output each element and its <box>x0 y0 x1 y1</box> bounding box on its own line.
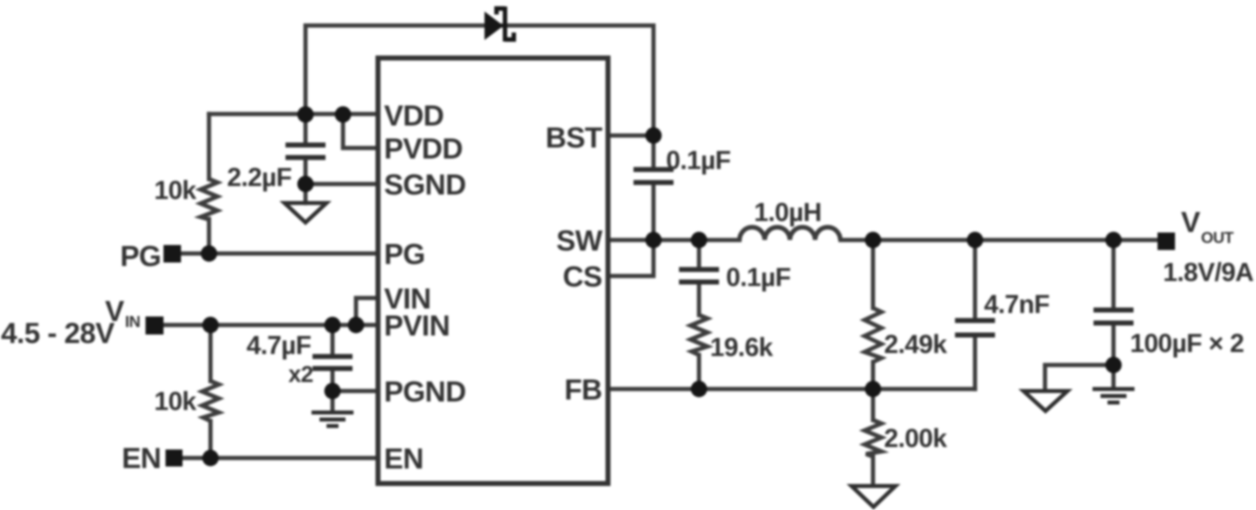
node dot VIN-c <box>348 317 364 333</box>
svg-text:x2: x2 <box>288 361 313 387</box>
svg-text:2.49k: 2.49k <box>884 329 948 359</box>
node dot VDD-b <box>335 106 351 122</box>
wire EN <box>174 456 384 460</box>
wire top loop VDD to BST <box>306 26 654 136</box>
wire SGND <box>306 182 385 186</box>
resistor 19.6k <box>691 315 708 355</box>
svg-text:PGND: PGND <box>384 377 466 409</box>
resistor 10k lower <box>202 381 219 421</box>
svg-text:V: V <box>1181 207 1201 239</box>
wire 2.2uF cap column <box>303 114 307 203</box>
svg-text:PVIN: PVIN <box>384 311 450 343</box>
IC U1 body <box>378 58 608 484</box>
svg-text:0.1µF: 0.1µF <box>726 262 791 292</box>
wire 2.49k column <box>871 240 875 389</box>
svg-text:BST: BST <box>546 123 603 155</box>
svg-text:4.7µF: 4.7µF <box>246 330 311 360</box>
wire 2.00k column <box>871 389 875 485</box>
terminal square VOUT <box>1158 233 1176 251</box>
resistor 2.49k <box>865 308 882 362</box>
resistor 2.00k <box>865 420 882 457</box>
svg-text:VDD: VDD <box>384 101 444 133</box>
wire VIN rail <box>155 323 384 327</box>
ground PGND earth bars <box>312 413 354 427</box>
svg-text:10k: 10k <box>154 386 197 416</box>
wire VIN stub <box>356 298 384 325</box>
ground 100uF earth bars <box>1093 389 1135 403</box>
node dot VDD-a <box>297 106 313 122</box>
svg-text:2.2µF: 2.2µF <box>227 162 292 192</box>
node dot SW-a <box>645 232 661 248</box>
node dot PG <box>201 245 217 261</box>
diode D1 schottky cathode bar <box>497 7 514 42</box>
ground SGND open triangle <box>285 203 327 223</box>
wire FB rail <box>602 387 975 391</box>
wire VDD branch down to PG node <box>207 114 211 254</box>
wire PG <box>172 251 384 255</box>
wire PGND <box>333 389 385 393</box>
wire SW rail left of inductor <box>602 238 740 242</box>
node dot FB-b <box>865 381 881 397</box>
terminal square VIN <box>146 317 164 335</box>
node dot VIN-b <box>324 317 340 333</box>
node dot VIN-a <box>202 317 218 333</box>
wire 0.1uF CS cap column <box>697 240 701 389</box>
svg-text:1.8V/9A: 1.8V/9A <box>1163 257 1254 287</box>
node dot SW-b <box>691 232 707 248</box>
svg-text:PVDD: PVDD <box>384 134 463 166</box>
capacitor 100uF plates <box>1094 310 1134 323</box>
wire PVDD link <box>343 115 384 148</box>
wire VDD rail <box>209 112 384 116</box>
svg-text:1.0µH: 1.0µH <box>754 197 821 227</box>
wire SW rail right of inductor <box>841 238 1167 242</box>
svg-text:4.5 - 28V: 4.5 - 28V <box>1 318 115 350</box>
svg-text:PG: PG <box>120 241 161 273</box>
wire BST cap column + CS link <box>602 136 654 277</box>
node dot SW-c <box>865 232 881 248</box>
svg-text:4.7nF: 4.7nF <box>984 289 1049 319</box>
diode D1 schottky <box>485 12 504 41</box>
resistor 10k upper <box>201 179 218 220</box>
svg-text:100µF × 2: 100µF × 2 <box>1130 328 1244 358</box>
svg-text:2.00k: 2.00k <box>884 423 948 453</box>
svg-text:EN: EN <box>384 444 423 476</box>
capacitor 4.7uF plates <box>313 357 353 369</box>
wire 4.7uF column <box>330 325 334 411</box>
svg-text:10k: 10k <box>154 175 197 205</box>
svg-text:IN: IN <box>125 314 140 331</box>
capacitor 2.2uF plates <box>286 145 326 158</box>
ground 2.00k open triangle <box>852 486 896 507</box>
svg-text:PG: PG <box>384 239 425 271</box>
svg-text:SW: SW <box>556 226 603 258</box>
capacitor CS 0.1uF plates <box>679 270 719 283</box>
svg-text:OUT: OUT <box>1201 230 1234 247</box>
node dot COUT-gnd <box>1105 357 1121 373</box>
wire 10k lower column <box>208 325 212 458</box>
terminal square EN <box>166 450 183 467</box>
svg-text:FB: FB <box>564 375 602 407</box>
svg-text:CS: CS <box>563 262 602 294</box>
wire 100uF gnd left link <box>1045 365 1114 390</box>
node dot PGND <box>324 383 340 399</box>
svg-text:0.1µF: 0.1µF <box>666 145 731 175</box>
terminal square PG <box>164 245 182 263</box>
ground Vout open triangle <box>1024 391 1068 411</box>
wire 100uF column <box>1111 240 1115 387</box>
node dot FB-a <box>691 381 707 397</box>
node dot SGND <box>297 176 313 192</box>
capacitor BST 0.1uF plates <box>634 170 674 183</box>
wire 4.7nF column <box>973 240 977 389</box>
capacitor 4.7nF plates <box>955 321 995 336</box>
node dot SW-d <box>967 232 983 248</box>
inductor L1 1.0uH <box>740 227 841 240</box>
svg-text:19.6k: 19.6k <box>710 332 774 362</box>
svg-text:EN: EN <box>122 443 161 475</box>
node dot SW-e <box>1105 232 1121 248</box>
node dot BST <box>645 127 661 143</box>
node dot EN <box>202 450 218 466</box>
wire BST <box>602 133 654 137</box>
svg-text:SGND: SGND <box>384 170 466 202</box>
